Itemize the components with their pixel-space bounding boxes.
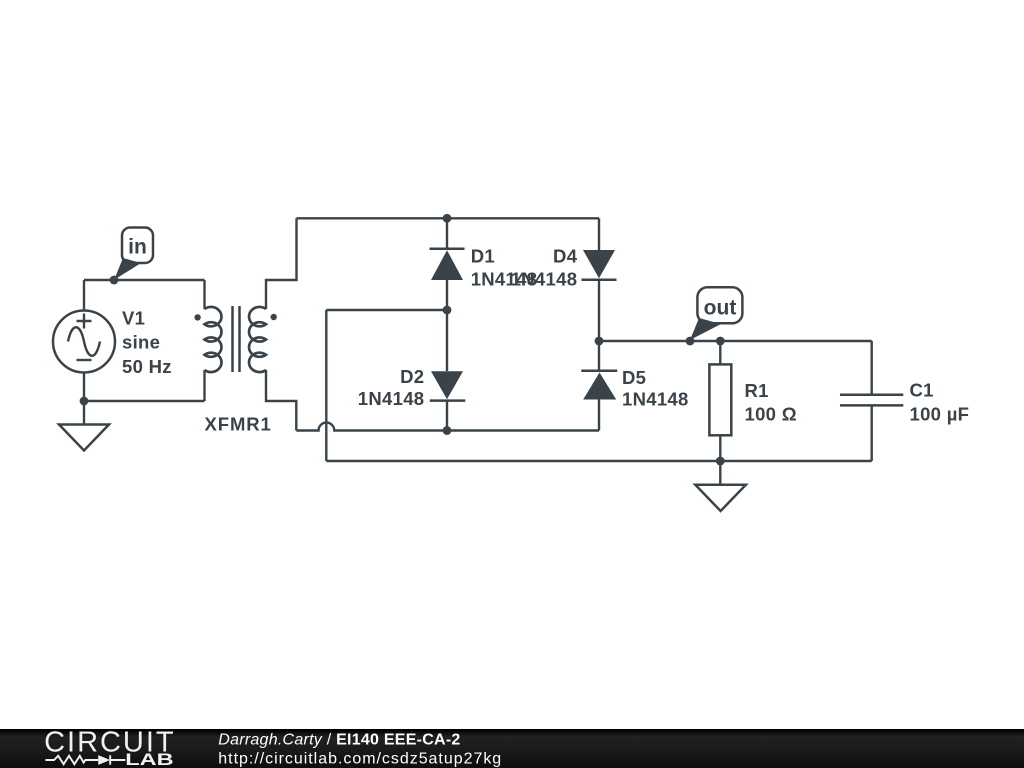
transformer core [233, 306, 240, 372]
wire bottom rail [326, 460, 871, 462]
svg-text:R1: R1 [745, 380, 769, 401]
svg-text:in: in [128, 236, 147, 259]
ground GND1 [59, 401, 109, 451]
svg-text:LAB: LAB [125, 751, 173, 768]
capacitor C1 [840, 341, 903, 461]
svg-text:1N4148: 1N4148 [622, 389, 689, 410]
junction dot D1-D2 [443, 306, 452, 315]
svg-text:100 Ω: 100 Ω [745, 404, 797, 425]
diode D5 [581, 341, 617, 431]
diode D4 [582, 218, 617, 341]
junction dot top rail D1 [443, 214, 452, 223]
wire top rail [297, 217, 600, 219]
junction dot V1 bottom [80, 397, 89, 406]
svg-text:C1: C1 [910, 379, 934, 400]
node out dot [686, 337, 695, 346]
svg-text:D1: D1 [471, 245, 495, 266]
svg-text:1N4148: 1N4148 [511, 269, 578, 290]
flag out [690, 287, 742, 340]
svg-text:V1: V1 [122, 307, 145, 328]
phase dot primary [194, 314, 200, 320]
junction dot R1 bottom [716, 457, 725, 466]
svg-text:XFMR1: XFMR1 [205, 414, 272, 435]
svg-text:D5: D5 [622, 367, 646, 388]
transformer XFMR1 secondary winding [249, 218, 296, 430]
resistor R1 [709, 341, 731, 461]
junction dot D2 bottom [443, 426, 452, 435]
svg-text:http://circuitlab.com/csdz5atu: http://circuitlab.com/csdz5atup27kg [218, 751, 502, 768]
junction dot R1 top [716, 337, 725, 346]
svg-text:D2: D2 [400, 366, 424, 387]
node in dot [110, 276, 119, 285]
ground GND2 [695, 461, 746, 511]
svg-text:100 µF: 100 µF [910, 404, 970, 425]
wire left vertical to bottom rail [325, 310, 327, 461]
svg-text:sine: sine [122, 332, 160, 353]
svg-text:50 Hz: 50 Hz [122, 356, 172, 377]
svg-text:Darragh.Carty / EI140 EEE-CA-2: Darragh.Carty / EI140 EEE-CA-2 [218, 732, 460, 749]
wire V1 top lead [83, 280, 85, 311]
svg-text:out: out [704, 297, 737, 320]
voltage source V1 [53, 311, 115, 373]
flag in [114, 228, 153, 281]
phase dot secondary [271, 314, 277, 320]
junction dot D4-D5 [595, 337, 604, 346]
wire top-left rail V1 to XFMR1 primary [84, 279, 205, 281]
wire bottom mid rail [447, 429, 599, 431]
wire secondary-bottom rail with hop [296, 423, 447, 431]
wire mid rail to left [326, 309, 447, 311]
wire out rail [599, 340, 872, 342]
transformer XFMR1 primary winding [205, 280, 222, 401]
wire V1 bottom lead [83, 373, 85, 402]
wire bottom-left rail [84, 400, 205, 402]
svg-text:D4: D4 [553, 245, 578, 266]
svg-text:1N4148: 1N4148 [358, 388, 425, 409]
diode D1 [430, 218, 465, 310]
logo resistor-diode glyph [46, 755, 126, 765]
logo diode triangle [98, 755, 110, 765]
diode D2 [430, 310, 466, 431]
